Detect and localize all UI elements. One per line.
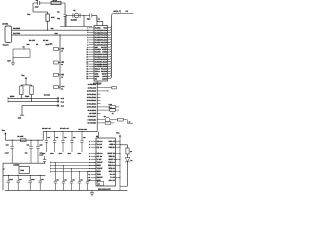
wire R5 down bbox=[30, 95, 32, 102]
U1 right pins bus entries bbox=[108, 26, 112, 79]
svg-text:Vcc: Vcc bbox=[116, 132, 119, 135]
node R5/line2 bbox=[31, 101, 32, 102]
wire elbow right bbox=[97, 20, 103, 22]
svg-text:1uF: 1uF bbox=[73, 137, 76, 139]
svg-text:GND 0: GND 0 bbox=[109, 143, 114, 146]
svg-text:R1 10: R1 10 bbox=[53, 0, 57, 2]
jumper J3 box bbox=[54, 61, 59, 64]
net row 23 P2.2/A10 bbox=[87, 90, 108, 93]
svg-text:104: 104 bbox=[72, 179, 75, 181]
capacitor bottom row x87.4 bbox=[86, 171, 91, 190]
wire right leg lower bbox=[64, 16, 66, 26]
wire ground rail E bbox=[5, 189, 128, 191]
wire bus line 4 to U3 bbox=[50, 171, 96, 173]
capacitor bottom-left x18.2 bbox=[16, 175, 21, 191]
svg-text:104: 104 bbox=[64, 179, 67, 181]
jumper J5 box bbox=[54, 85, 59, 88]
capacitor bottom row x79.4 bbox=[78, 171, 83, 190]
capacitor at x12.2 bbox=[5, 140, 14, 163]
net row 29 PSEN bbox=[89, 112, 114, 115]
bus corner and top run bbox=[111, 14, 133, 16]
svg-text:AD[0..7]: AD[0..7] bbox=[113, 10, 121, 13]
svg-text:RXD 3.0: RXD 3.0 bbox=[108, 164, 115, 167]
sub-block X2 inside U3 bbox=[97, 181, 104, 185]
svg-text:T1OUT: T1OUT bbox=[97, 167, 104, 170]
capacitor C6 in right leg bbox=[63, 14, 66, 16]
net row 25 P2.4/A12 bbox=[87, 96, 101, 99]
svg-text:DTR 14: DTR 14 bbox=[109, 167, 115, 170]
svg-text:1uF: 1uF bbox=[83, 137, 86, 139]
resistor R4 pullup bbox=[20, 86, 23, 95]
capacitor bottom-left x40.2 bbox=[38, 175, 43, 191]
wire R2 top bbox=[47, 12, 49, 14]
capacitor C5 10uF bbox=[37, 1, 40, 5]
power VCC arrow right bbox=[116, 132, 121, 191]
net row 24 P2.3/A11 bbox=[87, 93, 101, 96]
wire J4 stub bbox=[58, 74, 60, 76]
wire J5 stub bbox=[58, 86, 60, 88]
svg-text:104: 104 bbox=[56, 179, 59, 181]
svg-text:R1OUT: R1OUT bbox=[97, 176, 104, 179]
wire elbow down bbox=[96, 16, 98, 22]
svg-text:C1+ 1u: C1+ 1u bbox=[97, 140, 103, 143]
svg-text:T1IN 11: T1IN 11 bbox=[109, 146, 115, 149]
wire branch right cap to rail bbox=[83, 16, 85, 27]
svg-text:V+ C3: V+ C3 bbox=[110, 173, 115, 176]
wire bus line 3 to U3 bbox=[50, 168, 96, 170]
diode LED D2 bbox=[125, 158, 130, 162]
wire into IC top bbox=[102, 21, 104, 25]
plug line3 end bbox=[57, 104, 59, 107]
svg-text:V- C4: V- C4 bbox=[110, 176, 114, 179]
power VCC arrow bottom bbox=[2, 129, 7, 140]
svg-text:RTS 13: RTS 13 bbox=[109, 170, 115, 173]
svg-text:1uF: 1uF bbox=[47, 137, 50, 139]
switch S1 loop bbox=[13, 49, 30, 58]
svg-text:16V+: 16V+ bbox=[59, 153, 63, 155]
wire pullup split bbox=[21, 84, 31, 86]
svg-text:104: 104 bbox=[41, 179, 44, 181]
wire U3 top stub bbox=[97, 132, 99, 138]
wire crystal line bbox=[66, 14, 90, 16]
svg-text:X2: X2 bbox=[98, 184, 100, 186]
node crystal right branch bbox=[83, 15, 84, 16]
resistor R5 pullup bbox=[30, 86, 33, 95]
wire left leg to rail bbox=[65, 15, 67, 26]
U3 right pins bbox=[115, 141, 120, 178]
plug line2 end bbox=[57, 100, 59, 103]
svg-text:S2: S2 bbox=[61, 51, 63, 53]
wire R4 top bbox=[20, 85, 22, 86]
wire right leg upper bbox=[64, 3, 66, 14]
wire bus line 1 to U3 bbox=[50, 162, 96, 164]
net row 27 P2.6/A14 bbox=[87, 102, 101, 105]
crystal X1 bbox=[73, 13, 80, 18]
wire J2 stub bbox=[58, 48, 60, 50]
node J2 bbox=[60, 48, 61, 49]
svg-text:10uF: 10uF bbox=[9, 179, 12, 181]
svg-text:R2OT 9: R2OT 9 bbox=[109, 158, 115, 161]
wire J3 stub bbox=[58, 61, 60, 63]
net row 21 P2.0/A8 bbox=[88, 83, 101, 86]
node junction R2/line bbox=[47, 30, 48, 31]
svg-text:Vcc: Vcc bbox=[21, 74, 24, 77]
svg-text:V+ 8.5: V+ 8.5 bbox=[97, 143, 102, 146]
svg-text:Vcc: Vcc bbox=[27, 13, 30, 16]
net row 26 P2.5/A13 bbox=[87, 99, 101, 102]
svg-text:104: 104 bbox=[80, 179, 83, 181]
net row 9 RST/LED bbox=[88, 115, 133, 124]
svg-text:MAX232ACP: MAX232ACP bbox=[98, 188, 111, 191]
svg-text:S2: S2 bbox=[129, 121, 131, 123]
diode D1 4007 bbox=[20, 139, 26, 142]
svg-text:1uF: 1uF bbox=[56, 137, 59, 139]
wire left leg horizontal bbox=[33, 11, 48, 13]
wire S1 down bbox=[12, 57, 14, 63]
net row 22 P2.1/A9 bbox=[88, 86, 117, 89]
jumper J4 box bbox=[54, 73, 59, 76]
capacitor charge pump 3 bbox=[59, 131, 67, 155]
wire net line3 bbox=[22, 105, 59, 107]
svg-text:T2OUT: T2OUT bbox=[97, 161, 104, 164]
svg-text:VCC +5: VCC +5 bbox=[109, 140, 115, 143]
svg-text:16V+: 16V+ bbox=[50, 153, 54, 155]
svg-text:R6: R6 bbox=[61, 89, 63, 91]
svg-text:R1OT 12: R1OT 12 bbox=[108, 152, 115, 155]
net row 17 P3.7/RD bbox=[88, 122, 115, 125]
IC U1 AT89C51 body bbox=[94, 26, 108, 82]
resistor R8 bbox=[126, 148, 129, 154]
wire left edge vertical bbox=[2, 163, 4, 190]
node J3 bbox=[60, 62, 61, 63]
resistor R2 8.2K vertical bbox=[46, 14, 49, 21]
capacitor charge pump 5 bbox=[78, 131, 86, 155]
svg-text:104: 104 bbox=[19, 179, 22, 181]
ground symbol under S1 bbox=[11, 63, 15, 66]
svg-text:J1 DB9: J1 DB9 bbox=[2, 23, 8, 26]
U3 right pin names bbox=[108, 140, 115, 182]
capacitor at x38 bbox=[36, 140, 42, 163]
svg-text:C2+ 1u: C2+ 1u bbox=[97, 152, 103, 155]
wire jog railA to railB bbox=[42, 132, 44, 141]
wire spine below U1 bbox=[96, 81, 98, 132]
connector J1 body bbox=[5, 26, 12, 43]
svg-text:Vcc: Vcc bbox=[2, 129, 5, 132]
svg-text:TXD 3.1: TXD 3.1 bbox=[108, 161, 114, 164]
svg-text:V- 8.5: V- 8.5 bbox=[97, 158, 102, 161]
capacitor bottom-left x8.4 bbox=[7, 175, 13, 191]
jumper J2 box bbox=[54, 47, 59, 50]
capacitor lone C 4.7uF bbox=[39, 153, 46, 163]
wire chain down1 bbox=[126, 145, 128, 148]
node J5 bbox=[60, 86, 61, 87]
node R4/line1 bbox=[21, 98, 22, 99]
resistor R1 bbox=[51, 2, 61, 5]
capacitor bottom row x71.4 bbox=[70, 168, 75, 190]
wire rail D bbox=[3, 174, 45, 176]
svg-text:16V+: 16V+ bbox=[68, 153, 72, 155]
regulator U4 7805 bbox=[19, 166, 29, 173]
capacitor at x31 bbox=[25, 140, 33, 163]
svg-text:S4: S4 bbox=[61, 76, 63, 78]
svg-text:T2IN 10: T2IN 10 bbox=[108, 155, 114, 158]
tick line2 left bbox=[7, 100, 9, 102]
svg-text:16V+: 16V+ bbox=[78, 153, 82, 155]
wire chain top bbox=[120, 144, 128, 146]
capacitor bottom row x55.4 bbox=[54, 162, 59, 190]
wire R5 top bbox=[31, 85, 33, 86]
node S1 top bbox=[23, 48, 24, 49]
node railA c1 bbox=[12, 140, 13, 141]
svg-text:C2+ C4: C2+ C4 bbox=[109, 179, 115, 182]
net row 28 P2.7/A15 bbox=[87, 103, 119, 108]
wire rail A bbox=[5, 139, 43, 141]
wire bus line 2 to U3 bbox=[50, 165, 96, 167]
tick line3 bottom bbox=[20, 114, 24, 116]
net row 31 EA/VPP bbox=[88, 115, 97, 118]
U1 right pin names bbox=[100, 26, 108, 80]
wire chain down2 bbox=[126, 154, 128, 158]
capacitor C3 on line bbox=[90, 13, 92, 17]
capacitor bottom-left x30.2 bbox=[28, 175, 34, 191]
node left leg bbox=[65, 15, 66, 16]
wire U3 bottom-right link bbox=[120, 185, 128, 187]
capacitor charge pump 1 bbox=[42, 131, 50, 155]
IC U3 MAX232 body bbox=[96, 138, 115, 186]
ground symbol on rail E bbox=[90, 190, 94, 195]
svg-text:C2- 1u: C2- 1u bbox=[97, 155, 102, 158]
wire chain down3 bbox=[126, 162, 128, 186]
svg-text:1uF: 1uF bbox=[64, 137, 67, 139]
U3 left pins bbox=[88, 140, 103, 182]
wire left leg down bbox=[32, 3, 34, 12]
node railA c3 bbox=[37, 140, 38, 141]
wire RXD line bbox=[12, 29, 95, 31]
power VCC arrow bbox=[21, 74, 27, 85]
wire net line1 bbox=[8, 97, 59, 99]
svg-text:S3: S3 bbox=[61, 64, 63, 66]
bus vertical P0/P2 bbox=[110, 16, 112, 77]
wire cap to elbow bbox=[92, 15, 97, 17]
svg-text:16V+: 16V+ bbox=[42, 153, 46, 155]
node railA c2 bbox=[30, 140, 31, 141]
pin stub EA top bbox=[96, 17, 98, 26]
wire ground rail of crystal bbox=[60, 25, 92, 27]
svg-text:100u: 100u bbox=[31, 179, 34, 181]
svg-text:Conn-1: Conn-1 bbox=[3, 44, 9, 47]
wire rail B bbox=[43, 131, 97, 133]
capacitor bottom row x63.4 bbox=[62, 165, 67, 190]
capacitor charge pump 4 bbox=[68, 131, 76, 155]
wire net line2 bbox=[8, 100, 59, 102]
svg-text:C1- 1u: C1- 1u bbox=[97, 146, 102, 149]
wire TXD line bbox=[12, 34, 95, 36]
wire top loop horizontal bbox=[33, 2, 65, 4]
wire rail C bbox=[3, 162, 45, 164]
U1 left pin stubs and numbers bbox=[86, 26, 102, 80]
tick line1 left bbox=[7, 97, 9, 99]
capacitor charge pump 2 bbox=[50, 131, 58, 155]
wire R2 to RXD line bbox=[47, 21, 49, 30]
plug line1 end bbox=[57, 97, 59, 100]
wire mid column vertical bbox=[59, 35, 61, 89]
net row 30 ALE/PG bbox=[88, 106, 119, 111]
wire R4 down bbox=[20, 95, 22, 99]
node mid top bbox=[59, 35, 60, 36]
node J4 bbox=[60, 74, 61, 75]
wire line3 drop bbox=[21, 106, 23, 116]
svg-text:C5: C5 bbox=[36, 0, 38, 2]
